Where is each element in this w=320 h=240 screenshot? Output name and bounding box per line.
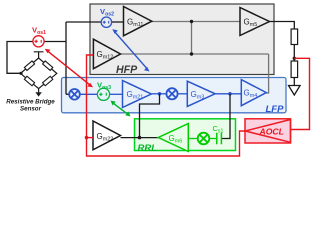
WIRES-GRAY-HFP [121, 22, 269, 94]
offset source Vos3 [97, 88, 109, 100]
AOCL triangle [245, 120, 290, 143]
node HFP junction bottom [190, 52, 193, 55]
node Gm22 out [138, 136, 142, 140]
wire red vertical feedback [87, 55, 246, 156]
wire Gm21 to chopper2 [151, 93, 166, 95]
offset source Vos1 [33, 36, 44, 47]
wire node A to chopper1 [66, 93, 69, 95]
wire node A to Vos2 [66, 21, 101, 23]
node bridge left [19, 72, 22, 75]
resistor R1 [291, 29, 298, 45]
RED feedback wires [87, 55, 310, 156]
AOCL pink box [245, 119, 291, 143]
WIRES-BLACK-LEFT [7, 22, 124, 94]
op-amp Gm4 [241, 80, 266, 106]
wire Gm11 out to Gm5 in [152, 21, 240, 23]
LFP blue box [62, 78, 287, 113]
wire Vos3 to Gm21 [110, 93, 123, 95]
node HFP junction top [190, 20, 193, 23]
wire junction vertical [191, 22, 193, 55]
op-amp Gm6 [158, 124, 188, 152]
op-amp Gm11 [124, 7, 152, 36]
wire Gm6 to chopper3 [188, 138, 197, 140]
wire Gm5 output to divider [270, 22, 295, 30]
chopper CH3 [198, 133, 210, 145]
node divider tap [293, 57, 296, 60]
bridge resistor TL [24, 61, 34, 71]
wire AOCL right to divider [291, 58, 310, 129]
svg-text:LFP: LFP [266, 104, 285, 115]
arrow red Vos1-Vos3 [45, 49, 93, 88]
wire chopper3 to Cs1 [209, 138, 217, 140]
wire red to Gm22 input [87, 137, 94, 139]
wire HFP to Gm4 tip [266, 54, 268, 93]
bridge resistor BR [43, 76, 53, 86]
op-amp Gm21 [123, 81, 152, 108]
RRL green box [135, 119, 236, 151]
resistive bridge sensor [21, 52, 57, 93]
op-amp Gm5 [240, 8, 270, 36]
wire R2 to ground [293, 78, 295, 86]
HFP gray box [90, 4, 274, 75]
svg-text:AOCL: AOCL [259, 127, 284, 137]
wire Vos2 to Gm11 [112, 21, 124, 23]
op-amp Gm3 [187, 81, 215, 106]
op-amp Gm22 [93, 121, 121, 150]
wire node A vertical [65, 22, 67, 94]
bridge resistor BL [24, 76, 34, 86]
bridge bottom arrow [35, 92, 41, 96]
offset source Vos2 [101, 17, 111, 27]
svg-text:HFP: HFP [116, 64, 138, 76]
ground [289, 86, 301, 96]
svg-text:Resistive Bridge: Resistive Bridge [6, 99, 55, 106]
bridge resistor TR [43, 61, 53, 71]
svg-text:Vos1: Vos1 [32, 26, 46, 36]
chopper CH1 [69, 89, 80, 100]
LFP wires blue-black [66, 93, 69, 95]
capacitor Cs1 [217, 133, 222, 144]
wire Gm12 out lower line [121, 53, 269, 55]
arrow blue Vos2-LFP [112, 29, 149, 71]
wire Gm22 out to Gm6 [121, 137, 159, 139]
arrow green Vos3-RRL [111, 101, 131, 117]
wire bridge-left to Vos1 [7, 42, 33, 74]
resistor R2 [291, 61, 298, 78]
node Gm3 out [228, 92, 232, 96]
wire chopper1 to Vos3 [80, 93, 98, 95]
svg-text:RRL: RRL [138, 143, 158, 154]
wire R1 to R2 [293, 45, 295, 62]
op-amp Gm12 [93, 39, 120, 68]
node red Gm22 in [85, 136, 89, 140]
svg-text:Sensor: Sensor [20, 106, 42, 113]
wire Gm3 to Gm4 [215, 93, 241, 95]
wire chopper2 to Gm3 [177, 93, 187, 95]
wire Vos1 to node A [44, 41, 66, 43]
wire Gm21-node down to Gm22 node [140, 94, 160, 138]
node Gm21 out [158, 92, 162, 96]
chopper CH2 [166, 88, 177, 99]
wire Gm3-node down to Cs1 [222, 94, 230, 139]
